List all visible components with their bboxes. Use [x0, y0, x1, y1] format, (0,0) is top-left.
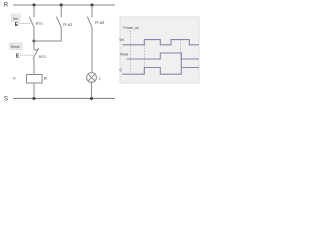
wire from top rail to contact R-a1 — [60, 5, 62, 17]
pushbutton BS1 (NO) blade — [29, 17, 34, 28]
svg-text:E: E — [15, 22, 19, 28]
svg-text:R-a2: R-a2 — [95, 20, 105, 25]
wire BS2 to coil R — [33, 58, 35, 74]
svg-text:Reset: Reset — [120, 53, 128, 57]
wire connector reset-fall to Q-rise — [180, 59, 182, 68]
dashed marker set rise — [144, 45, 146, 74]
svg-text:Power_on: Power_on — [123, 26, 139, 30]
svg-text:R: R — [4, 2, 9, 9]
junction dot merge of BS1 and R-a1 branches — [33, 40, 36, 43]
svg-text:Set: Set — [119, 38, 124, 42]
svg-text:BS1: BS1 — [36, 21, 43, 25]
label Set (tooltip box) — [12, 14, 21, 22]
lamp L (circle with X) — [87, 73, 97, 83]
waveform Set — [123, 40, 200, 45]
label Reset (tooltip box) — [10, 43, 23, 50]
waveform Reset — [127, 53, 200, 59]
svg-text:Set: Set — [13, 17, 18, 21]
wire R-a2 to lamp L — [91, 28, 93, 73]
pushbutton BS2 (NC) blade — [33, 48, 39, 59]
contact R-a1 (NO) blade — [57, 17, 62, 28]
svg-text:R-a1: R-a1 — [63, 22, 73, 27]
svg-text:Reset: Reset — [11, 45, 20, 49]
svg-text:BS2: BS2 — [39, 55, 46, 59]
wire dashed actuator link BS2 — [20, 54, 33, 56]
dashed marker reset fall — [180, 40, 182, 59]
junction dot top rail / R-a2 column — [91, 4, 94, 7]
svg-text:S: S — [4, 95, 8, 102]
wire BS1 to merge junction — [33, 28, 35, 50]
contact R-a2 (NO) blade — [87, 17, 92, 28]
timing diagram panel — [120, 17, 199, 83]
wire dashed actuator link BS1 — [19, 23, 32, 25]
svg-text:E: E — [16, 54, 20, 60]
wire R-a1 down to merge line — [34, 28, 61, 41]
junction dot top rail / R-a1 column — [60, 4, 63, 7]
relay coil R (rectangle) — [27, 75, 43, 84]
pushbutton BS2 (NC) fixed contact bar — [34, 49, 39, 51]
junction dot bottom rail / coil column — [33, 97, 36, 100]
svg-text:R: R — [44, 76, 48, 81]
junction dot top rail / BS1 column — [33, 4, 36, 7]
svg-text:L: L — [99, 76, 102, 81]
junction dot bottom rail / lamp column — [90, 97, 93, 100]
wire bottom rail S — [13, 97, 115, 99]
wire coil R to bottom rail — [33, 83, 35, 98]
waveform Q — [122, 68, 199, 75]
dashed marker power-on — [129, 31, 131, 74]
wire from top rail to BS1 — [33, 5, 35, 17]
wire from top rail to contact R-a2 — [91, 5, 93, 17]
svg-text:R: R — [13, 77, 16, 81]
wire lamp L to bottom rail — [91, 82, 93, 98]
wire top rail R — [13, 4, 115, 6]
